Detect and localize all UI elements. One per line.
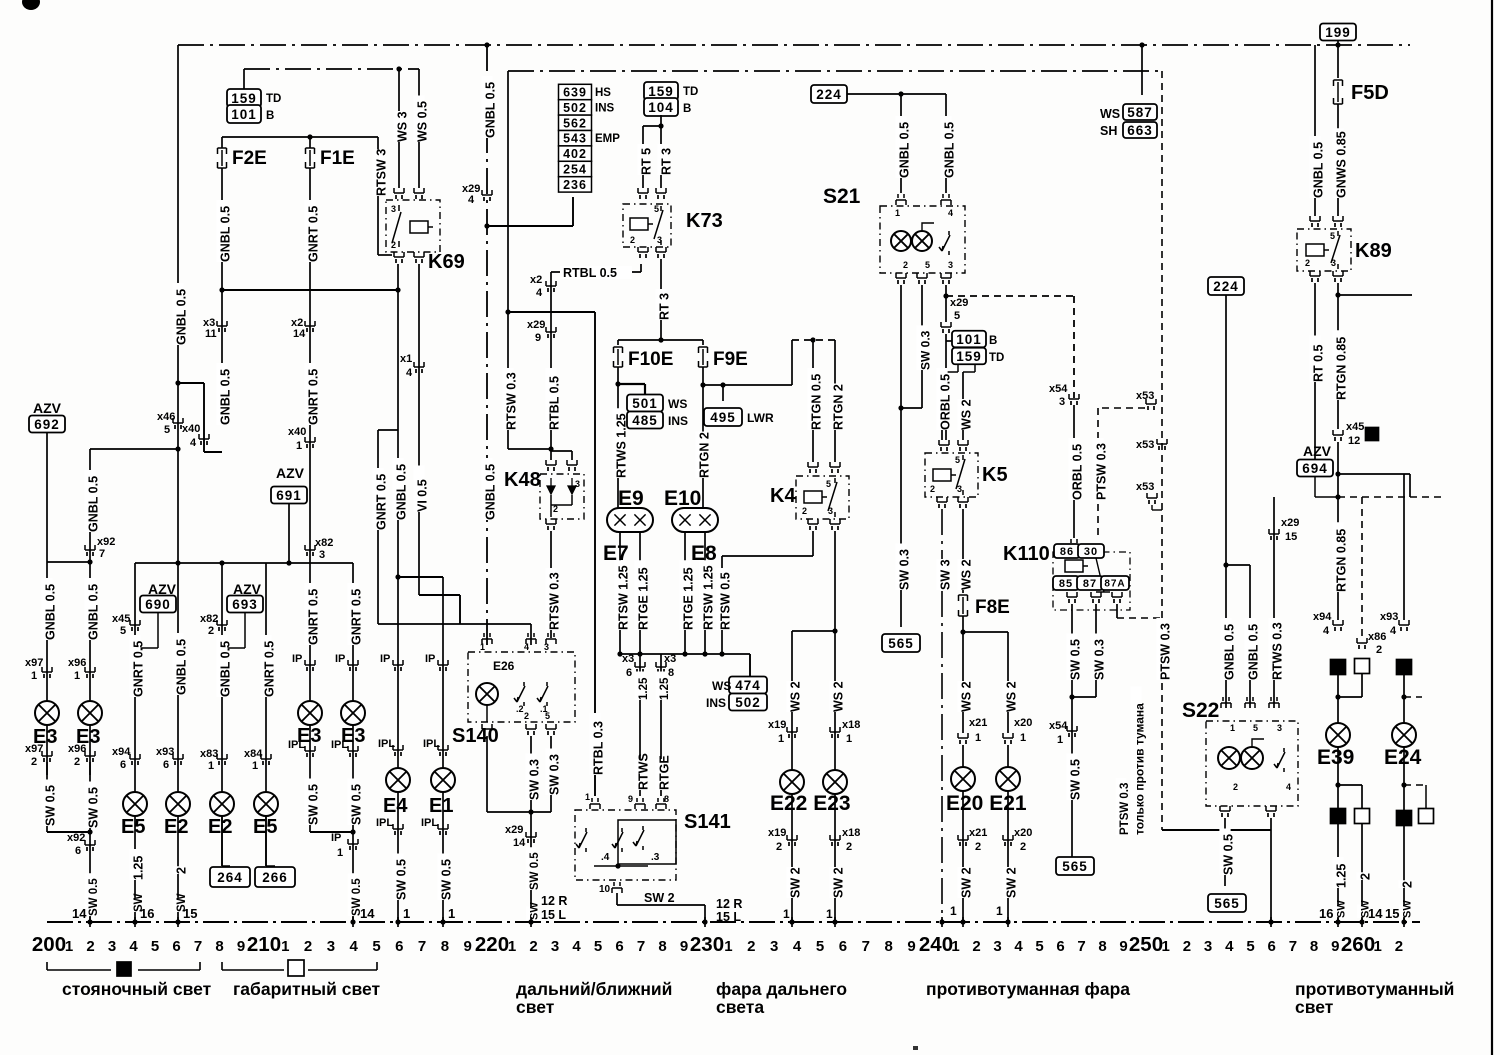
svg-text:GNBL 0.5: GNBL 0.5 (219, 641, 233, 697)
svg-text:x93: x93 (1380, 611, 1398, 623)
wire GNBL column to E2 lamp box264 (221, 563, 223, 866)
svg-text:2: 2 (1020, 841, 1026, 853)
node box 565 (S21) (882, 634, 920, 652)
svg-text:5: 5 (954, 310, 960, 322)
svg-text:87A: 87A (1104, 579, 1125, 590)
svg-text:RT 3: RT 3 (660, 148, 674, 175)
svg-text:IP: IP (335, 653, 345, 665)
svg-text:WS: WS (1100, 107, 1120, 121)
wire K89 pin3 junction (1337, 283, 1339, 429)
svg-text:x53: x53 (1136, 439, 1154, 451)
svg-text:RTWS 1.25: RTWS 1.25 (615, 413, 629, 478)
svg-text:RTGE 1.25: RTGE 1.25 (637, 567, 651, 630)
lamp E20 (962, 745, 964, 767)
connector X94 pin6 (130, 754, 140, 759)
svg-text:1: 1 (1162, 938, 1170, 955)
svg-text:IPL: IPL (331, 739, 348, 751)
svg-text:SW 2: SW 2 (1005, 867, 1019, 898)
svg-text:15: 15 (1285, 531, 1297, 543)
svg-text:543: 543 (563, 132, 587, 146)
svg-text:1: 1 (895, 208, 900, 218)
svg-text:x86: x86 (1368, 631, 1386, 643)
svg-text:SW 2: SW 2 (789, 867, 803, 898)
svg-text:2: 2 (1305, 258, 1310, 268)
lamp E2 left-low (210, 792, 234, 816)
svg-text:.4: .4 (601, 852, 610, 863)
svg-text:GNBL 0.5: GNBL 0.5 (395, 464, 409, 520)
svg-text:ORBL 0.5: ORBL 0.5 (939, 374, 953, 430)
bottom ground bus (47, 921, 1420, 923)
svg-text:GNBL 0.5: GNBL 0.5 (175, 639, 189, 695)
svg-text:2: 2 (175, 867, 189, 874)
svg-text:2: 2 (1233, 782, 1238, 792)
svg-text:3: 3 (1277, 723, 1282, 733)
svg-text:SW 3: SW 3 (939, 559, 953, 590)
wire S22 pin4 to bus (1270, 818, 1272, 922)
svg-text:x29: x29 (1281, 517, 1299, 529)
connector X19 pin1 (787, 727, 797, 732)
svg-text:4: 4 (793, 938, 802, 955)
wire SW 0.5 E4 (392, 854, 403, 901)
svg-text:IPL: IPL (376, 817, 393, 829)
node box 159 TD / 101 B (227, 89, 261, 107)
group bracket parking light (47, 962, 200, 970)
wire distribution rail (135, 562, 353, 564)
svg-text:1: 1 (996, 904, 1003, 918)
svg-text:B: B (266, 110, 274, 122)
node box 101 B / 159 TD (952, 331, 986, 348)
wire SW 0.5 E1 (437, 854, 448, 901)
svg-text:1: 1 (31, 670, 37, 682)
wire WS 0.5 drop (418, 69, 420, 188)
wire segment above F-fuses (244, 68, 419, 70)
wire K110 87 down (1095, 604, 1097, 697)
svg-text:RTSW 0.3: RTSW 0.3 (548, 572, 562, 630)
svg-text:PTSW 0.3: PTSW 0.3 (1119, 783, 1131, 835)
svg-text:GNBL 0.5: GNBL 0.5 (898, 122, 912, 178)
svg-text:SW 0.5: SW 0.5 (87, 787, 101, 828)
svg-text:1: 1 (585, 792, 590, 802)
connector X82 pin2 on F2E col (217, 620, 227, 625)
svg-text:SW 2: SW 2 (832, 867, 846, 898)
svg-text:x45: x45 (112, 613, 130, 625)
svg-text:GNBL 0.5: GNBL 0.5 (1312, 142, 1326, 198)
svg-text:SW 0.5: SW 0.5 (44, 785, 58, 826)
wires to S21 (900, 94, 902, 193)
connector X93 pin6 (173, 754, 183, 759)
svg-text:B: B (989, 335, 997, 347)
wires E9 leads (619, 532, 621, 654)
wires box to K5 (957, 364, 959, 372)
svg-text:220: 220 (475, 933, 509, 956)
svg-text:1: 1 (65, 938, 73, 955)
svg-text:WS 2: WS 2 (832, 681, 846, 712)
note only-against-fog (rotated) (1131, 686, 1142, 835)
svg-text:101: 101 (231, 107, 257, 122)
svg-text:x21: x21 (969, 827, 987, 839)
lamp E3 A (35, 701, 59, 725)
svg-text:5: 5 (372, 938, 380, 955)
svg-text:x29: x29 (950, 297, 968, 309)
svg-text:2: 2 (1359, 873, 1373, 880)
wire branch to x92 column (90, 448, 178, 450)
svg-text:SW 0.5: SW 0.5 (440, 859, 454, 900)
svg-text:3: 3 (108, 938, 116, 955)
wire bus30 to 587 box (1139, 42, 1144, 47)
svg-text:E2: E2 (208, 816, 232, 838)
wire RTSW 3 to K69 (377, 137, 379, 255)
svg-text:1.25: 1.25 (638, 677, 650, 700)
wire rail left end down to AZV690 column (134, 563, 136, 922)
wire K69 out GNBL 0.5 to E4 (397, 430, 399, 922)
svg-text:3: 3 (770, 938, 778, 955)
wire bus58 left drop (RTSW 0.3) (507, 71, 509, 449)
wire bus30 left drop to x46 column (177, 45, 179, 563)
svg-text:IPL: IPL (421, 817, 438, 829)
connector X3 pin6 (635, 662, 645, 667)
svg-text:AZV: AZV (276, 465, 305, 481)
wire elbow to x92-6 (47, 831, 90, 833)
svg-text:502: 502 (735, 695, 761, 710)
node box 266 (255, 867, 295, 887)
wire RT0.5/E24 column top (1403, 474, 1405, 620)
fuse F8E (959, 595, 968, 601)
wire E3 column B (GNBL 0.5) (89, 562, 91, 701)
connector X83 pin1 (217, 754, 227, 759)
svg-text:GNBL 0.5: GNBL 0.5 (943, 122, 957, 178)
connector X54 pin1 (1067, 726, 1077, 731)
svg-text:x3: x3 (664, 653, 676, 665)
svg-text:x40: x40 (182, 423, 200, 435)
svg-text:x18: x18 (842, 719, 860, 731)
wire fuse row feed (618, 339, 703, 341)
svg-text:INS: INS (595, 102, 615, 114)
svg-text:8: 8 (885, 938, 893, 955)
svg-text:692: 692 (34, 417, 60, 432)
svg-text:противотуманная фара: противотуманная фара (926, 979, 1130, 999)
svg-text:SW 0.3: SW 0.3 (918, 330, 932, 370)
svg-text:240: 240 (919, 933, 953, 956)
svg-text:5: 5 (1035, 938, 1043, 955)
svg-text:INS: INS (668, 414, 688, 428)
svg-text:E20 E21: E20 E21 (946, 792, 1027, 815)
bus 58 (second supply) horizontal dash-dot (508, 70, 1162, 72)
svg-text:3: 3 (319, 549, 325, 561)
svg-text:E24: E24 (1384, 746, 1422, 769)
svg-text:x92: x92 (67, 832, 85, 844)
svg-text:5: 5 (1246, 938, 1254, 955)
svg-text:x84: x84 (244, 748, 263, 760)
wire WS 3 drop (398, 69, 400, 188)
connector X18 pin2 (834, 794, 836, 922)
svg-text:EMP: EMP (595, 133, 620, 145)
node box 224 (S22 feed) (1208, 277, 1244, 295)
svg-text:4: 4 (468, 194, 475, 206)
relay K4 (808, 462, 818, 467)
svg-text:IPL: IPL (288, 739, 305, 751)
svg-text:2: 2 (86, 938, 94, 955)
svg-text:SW 0.5: SW 0.5 (1222, 834, 1236, 875)
svg-text:485: 485 (632, 413, 658, 428)
svg-text:GNBL 0.5: GNBL 0.5 (87, 476, 101, 532)
wire S21 pin5 joins pin2 (921, 285, 923, 408)
svg-text:5: 5 (1253, 723, 1258, 733)
svg-text:3: 3 (327, 938, 335, 955)
connector X19 pin2 (791, 794, 793, 922)
svg-text:2: 2 (846, 841, 852, 853)
svg-text:1: 1 (846, 733, 852, 745)
svg-text:1: 1 (281, 938, 289, 955)
svg-text:габаритный свет: габаритный свет (233, 979, 380, 999)
svg-text:1: 1 (508, 938, 516, 955)
bus 30 (top supply) horizontal dash-dot (178, 44, 1410, 46)
page right border line (1491, 0, 1493, 1055)
svg-text:2: 2 (31, 756, 37, 768)
wire S140 lamp to rail812 (486, 705, 488, 722)
svg-text:14: 14 (293, 328, 306, 340)
connector X54 pin3 (1069, 394, 1079, 399)
svg-text:GNBL 0.5: GNBL 0.5 (87, 584, 101, 640)
connector X20 pin1 (1003, 733, 1013, 738)
svg-text:S21: S21 (823, 185, 861, 208)
svg-text:RT 5: RT 5 (640, 148, 654, 175)
wire S22 pin2 to 565 (1224, 818, 1226, 886)
wire E5 column (GNRT) (129, 635, 140, 697)
svg-text:K5: K5 (982, 464, 1008, 486)
wire bus58 right drop (dashed PTSW line) (1161, 71, 1163, 830)
svg-text:SW 2: SW 2 (960, 867, 974, 898)
svg-text:7: 7 (637, 938, 645, 955)
svg-text:1: 1 (403, 906, 410, 921)
svg-text:GNRT 0.5: GNRT 0.5 (132, 641, 146, 697)
svg-text:15: 15 (1385, 906, 1399, 921)
svg-text:SW 0.3: SW 0.3 (528, 759, 542, 800)
lamp E2 (166, 792, 190, 816)
svg-text:x20: x20 (1014, 827, 1032, 839)
relay K89 (1310, 216, 1320, 221)
svg-text:RTGN 0.85: RTGN 0.85 (1335, 337, 1349, 400)
svg-text:E4: E4 (383, 795, 408, 817)
wire F8E junction (962, 616, 964, 733)
svg-text:1: 1 (951, 938, 959, 955)
svg-text:8: 8 (668, 667, 674, 679)
svg-text:693: 693 (232, 597, 258, 612)
svg-text:250: 250 (1129, 933, 1163, 956)
wire E24 down (1403, 747, 1405, 922)
svg-text:6: 6 (626, 667, 632, 679)
svg-text:2: 2 (1183, 938, 1191, 955)
group bracket marker light (222, 962, 377, 970)
fuse F10E (614, 347, 623, 353)
svg-text:SW: SW (1402, 900, 1414, 918)
wire E1 feed (395, 574, 400, 579)
wire S21 pin2 to 565 (900, 285, 902, 627)
svg-text:3: 3 (948, 260, 953, 270)
svg-text:GNRT 0.5: GNRT 0.5 (307, 589, 321, 645)
svg-text:6: 6 (75, 845, 81, 857)
svg-text:2: 2 (74, 756, 80, 768)
wire RTWS 0.3 S22 (1273, 497, 1275, 708)
svg-text:WS 2: WS 2 (1005, 681, 1019, 712)
svg-text:TD: TD (989, 352, 1004, 364)
wire GNBL 0.5 K89 feed (1314, 45, 1316, 216)
svg-text:стояночный свет: стояночный свет (62, 979, 212, 999)
svg-text:254: 254 (563, 163, 587, 177)
connector X84 pin1 (261, 754, 271, 759)
svg-text:SW 0.5: SW 0.5 (88, 878, 100, 916)
connector X40 pin1 (305, 437, 315, 442)
wire E5 column to box266 (265, 563, 267, 866)
svg-text:GNBL 0.5: GNBL 0.5 (484, 82, 498, 138)
svg-text:4: 4 (350, 938, 359, 955)
stray mark bottom (913, 1046, 918, 1050)
svg-text:6: 6 (839, 938, 847, 955)
connector X3 pin8 (656, 662, 666, 667)
lamp E3 D (341, 701, 365, 725)
wire E3 column A (GNBL 0.5) (46, 562, 48, 701)
svg-text:x54: x54 (1049, 383, 1068, 395)
connector X29 pin9 (546, 327, 556, 332)
svg-text:RTGE 1.25: RTGE 1.25 (682, 567, 696, 630)
svg-text:RTGE: RTGE (658, 755, 672, 790)
svg-text:224: 224 (1213, 279, 1239, 294)
wire from 159 box to segment (243, 69, 245, 89)
wire AZV692 drop (46, 432, 48, 562)
connector X21 pin2 (962, 791, 964, 922)
bus pin ticks (89, 917, 91, 927)
svg-text:14: 14 (360, 906, 375, 921)
svg-text:LWR: LWR (747, 411, 774, 425)
svg-text:87: 87 (1083, 578, 1097, 590)
svg-text:502: 502 (563, 101, 587, 115)
node junction AZV692/x92 (87, 559, 92, 564)
svg-text:ORBL 0.5: ORBL 0.5 (1071, 444, 1085, 500)
node box 159 TD / 104 B (K73 feed) (644, 82, 678, 100)
svg-text:5: 5 (654, 204, 659, 214)
svg-text:2: 2 (1376, 644, 1382, 656)
svg-text:15: 15 (183, 906, 197, 921)
svg-text:2: 2 (930, 484, 935, 494)
svg-text:639: 639 (563, 86, 587, 100)
svg-text:1: 1 (975, 732, 981, 744)
svg-text:x96: x96 (68, 743, 86, 755)
svg-text:GNRT 0.5: GNRT 0.5 (307, 369, 321, 425)
svg-text:E9: E9 (618, 487, 644, 510)
fuse F5D (1334, 80, 1343, 86)
svg-text:4: 4 (1014, 938, 1023, 955)
svg-text:3: 3 (1204, 938, 1212, 955)
connector X2 pin4 (550, 272, 552, 449)
svg-text:200: 200 (32, 933, 66, 956)
svg-text:SW 2: SW 2 (644, 891, 675, 905)
svg-text:SW 0.5: SW 0.5 (350, 784, 364, 825)
lamp E4 (386, 768, 410, 792)
svg-text:WS 3: WS 3 (396, 111, 410, 142)
svg-text:2: 2 (903, 260, 908, 270)
connector X86 pin2 (1357, 638, 1367, 643)
svg-text:6: 6 (1056, 938, 1064, 955)
wire RTBL 0.3 to S141 (505, 309, 510, 314)
wire SW 1.25 to bus16 (1332, 857, 1343, 888)
svg-text:4: 4 (1286, 782, 1291, 792)
svg-text:VI 0.5: VI 0.5 (416, 479, 430, 512)
lamp E21 (1007, 745, 1009, 767)
svg-text:1: 1 (724, 938, 732, 955)
svg-text:4: 4 (129, 938, 138, 955)
wire PTSW elbow to S22 pin4 wire (1162, 829, 1271, 831)
lamp E5 low (254, 792, 278, 816)
svg-text:.3: .3 (651, 852, 660, 863)
svg-text:WS 2: WS 2 (960, 681, 974, 712)
svg-text:565: 565 (888, 636, 914, 651)
wire PTSW labels lower (1156, 618, 1167, 680)
wire RTGN 0.5 to K4 (812, 340, 814, 462)
svg-text:2: 2 (630, 235, 635, 245)
svg-text:6: 6 (172, 938, 180, 955)
svg-text:4: 4 (190, 437, 197, 449)
svg-text:690: 690 (145, 597, 171, 612)
svg-text:K73: K73 (686, 210, 723, 232)
svg-text:691: 691 (276, 488, 302, 503)
svg-text:x45: x45 (1346, 421, 1364, 433)
svg-text:PTSW 0.3: PTSW 0.3 (1095, 443, 1109, 500)
svg-text:264: 264 (217, 870, 243, 885)
connector X94 pin4 (E39) (1333, 620, 1343, 625)
wire SW 0.5 A (46, 762, 48, 832)
svg-text:565: 565 (1214, 896, 1240, 911)
wire K110 85 down (1071, 604, 1073, 857)
fuse F2E (218, 148, 227, 154)
svg-text:WS 2: WS 2 (960, 559, 974, 590)
svg-text:SW: SW (1336, 900, 1348, 918)
svg-text:GNRT 0.5: GNRT 0.5 (375, 474, 389, 530)
svg-text:GNBL 0.5: GNBL 0.5 (175, 289, 189, 345)
svg-text:5: 5 (594, 938, 602, 955)
wire S21 pin3 rail (945, 285, 947, 296)
svg-text:S141: S141 (684, 811, 731, 833)
svg-text:E5: E5 (121, 816, 145, 838)
svg-text:GNRT 0.5: GNRT 0.5 (350, 589, 364, 645)
svg-text:12 R: 12 R (541, 894, 567, 908)
connector X93 pin4 (E24) (1399, 620, 1409, 625)
wire SW 0.5 C (304, 779, 315, 826)
svg-text:RTGN 2: RTGN 2 (832, 384, 846, 430)
svg-text:1: 1 (778, 733, 784, 745)
svg-text:230: 230 (690, 933, 724, 956)
connector X2 pin14 (305, 321, 315, 326)
connector X20 pin2 (1007, 791, 1009, 922)
svg-text:x1: x1 (400, 353, 412, 365)
svg-text:6: 6 (120, 759, 126, 771)
ground marks row1 (1331, 660, 1346, 675)
svg-text:x18: x18 (842, 827, 860, 839)
svg-text:14: 14 (513, 837, 526, 849)
svg-text:4: 4 (1323, 625, 1330, 637)
svg-text:5: 5 (816, 938, 824, 955)
svg-text:TD: TD (266, 93, 281, 105)
wire branch bus30col via x40 (175, 380, 180, 385)
svg-text:IP: IP (380, 653, 390, 665)
wire E2 column (GNBL from bus30 col) (177, 563, 179, 922)
node box 224 (S21 feed) (811, 85, 847, 103)
node box WS474/INS502 (749, 654, 751, 677)
svg-text:2: 2 (1395, 938, 1403, 955)
svg-text:7: 7 (1077, 938, 1085, 955)
node box 565 (S22) (1208, 894, 1246, 912)
switch unit S141 (590, 804, 600, 809)
wire S140 pin4 feed (378, 623, 531, 625)
svg-text:1: 1 (74, 670, 80, 682)
